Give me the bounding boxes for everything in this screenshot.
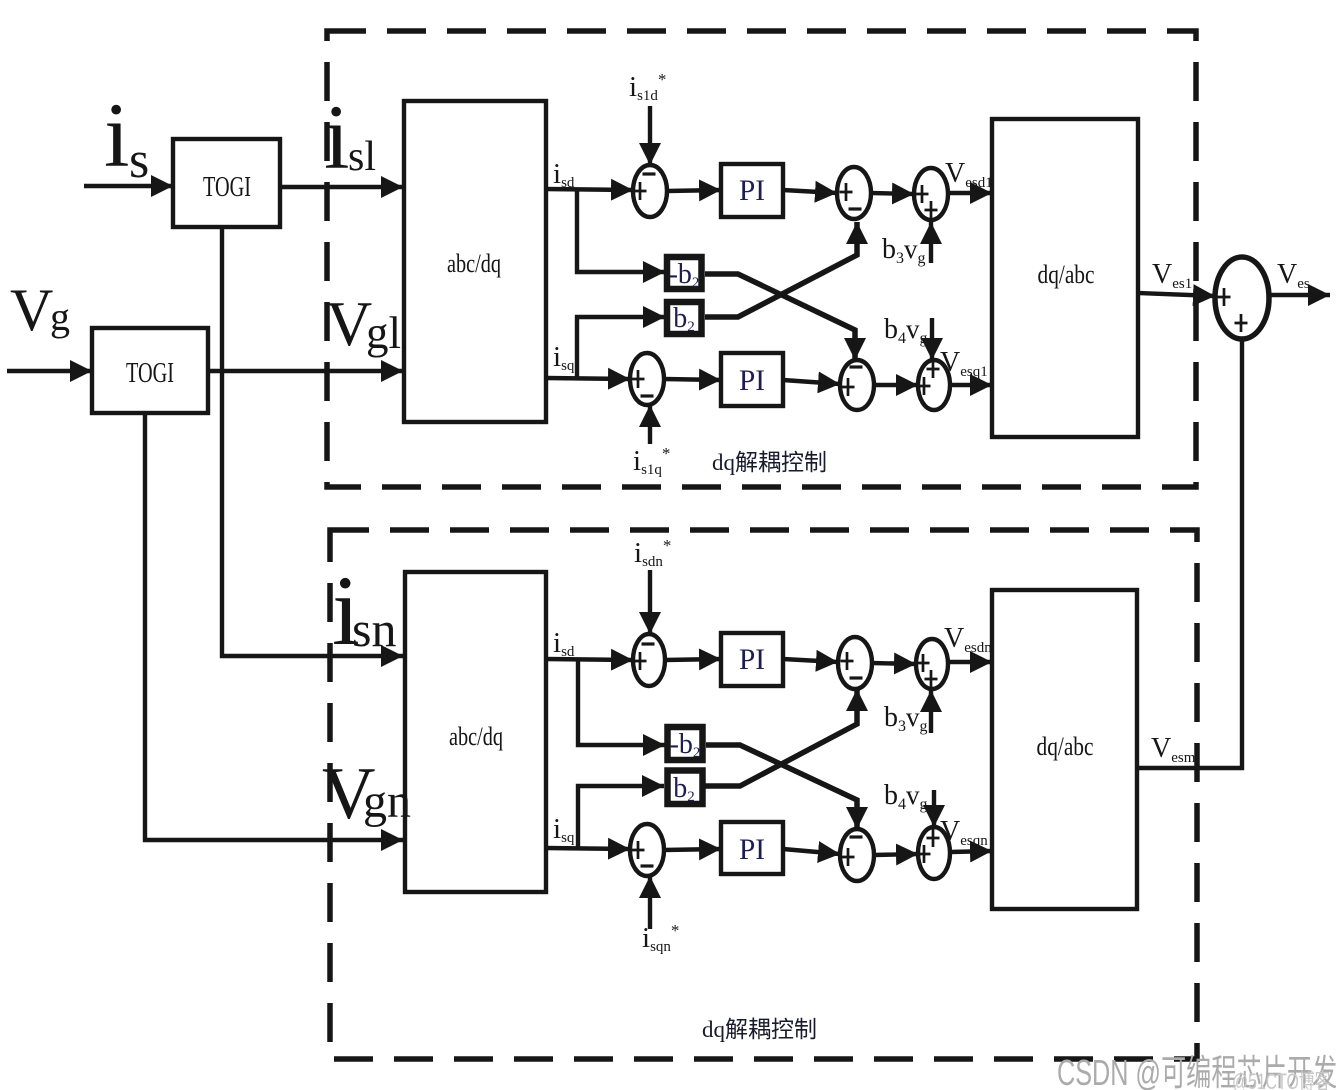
svg-text:Vesm: Vesm [1151, 733, 1196, 766]
svg-text:-b2: -b2 [669, 259, 700, 291]
svg-text:b4vg: b4vg [884, 314, 928, 347]
svg-text:isq: isq [553, 341, 575, 374]
svg-text:Ves: Ves [1277, 259, 1310, 292]
svg-text:Vesqn: Vesqn [940, 816, 988, 849]
svg-text:dq/abc: dq/abc [1038, 260, 1095, 289]
svg-text:isd: isd [553, 158, 575, 191]
svg-text:b4vg: b4vg [884, 780, 928, 813]
svg-text:is1d*: is1d* [629, 70, 666, 104]
svg-text:PI: PI [739, 174, 765, 207]
svg-text:Vesdn: Vesdn [944, 623, 992, 656]
svg-text:dq/abc: dq/abc [1037, 732, 1094, 761]
svg-text:b3vg: b3vg [884, 702, 928, 735]
svg-text:b3vg: b3vg [882, 234, 926, 267]
svg-text:Vesd1: Vesd1 [945, 158, 993, 191]
svg-text:Ves1: Ves1 [1152, 259, 1192, 292]
svg-text:PI: PI [739, 643, 765, 676]
svg-text:Vesq1: Vesq1 [940, 347, 988, 380]
svg-text:sl: sl [348, 134, 376, 180]
svg-text:dq解耦控制: dq解耦控制 [712, 450, 827, 475]
svg-text:-b2: -b2 [670, 729, 701, 761]
svg-text:sn: sn [352, 601, 396, 657]
svg-text:isdn*: isdn* [634, 536, 671, 570]
svg-text:isq: isq [553, 813, 575, 846]
svg-text:i: i [104, 84, 130, 186]
svg-text:s: s [129, 132, 149, 189]
svg-text:V: V [10, 277, 53, 343]
svg-text:b2: b2 [673, 773, 695, 805]
svg-text:isd: isd [553, 627, 575, 660]
svg-text:b2: b2 [673, 303, 695, 335]
svg-text:gn: gn [363, 775, 411, 828]
svg-text:@51CTO博客: @51CTO博客 [1232, 1069, 1330, 1090]
svg-text:i: i [324, 86, 350, 188]
svg-text:TOGI: TOGI [203, 171, 251, 203]
svg-text:abc/dq: abc/dq [447, 249, 501, 278]
svg-text:PI: PI [739, 833, 765, 866]
svg-text:isqn*: isqn* [642, 921, 679, 955]
svg-text:abc/dq: abc/dq [449, 722, 503, 751]
svg-text:PI: PI [739, 364, 765, 397]
svg-text:gl: gl [366, 308, 401, 358]
svg-text:TOGI: TOGI [126, 357, 174, 389]
svg-text:g: g [50, 294, 70, 339]
svg-text:is1q*: is1q* [633, 444, 670, 478]
svg-text:dq解耦控制: dq解耦控制 [702, 1017, 817, 1042]
